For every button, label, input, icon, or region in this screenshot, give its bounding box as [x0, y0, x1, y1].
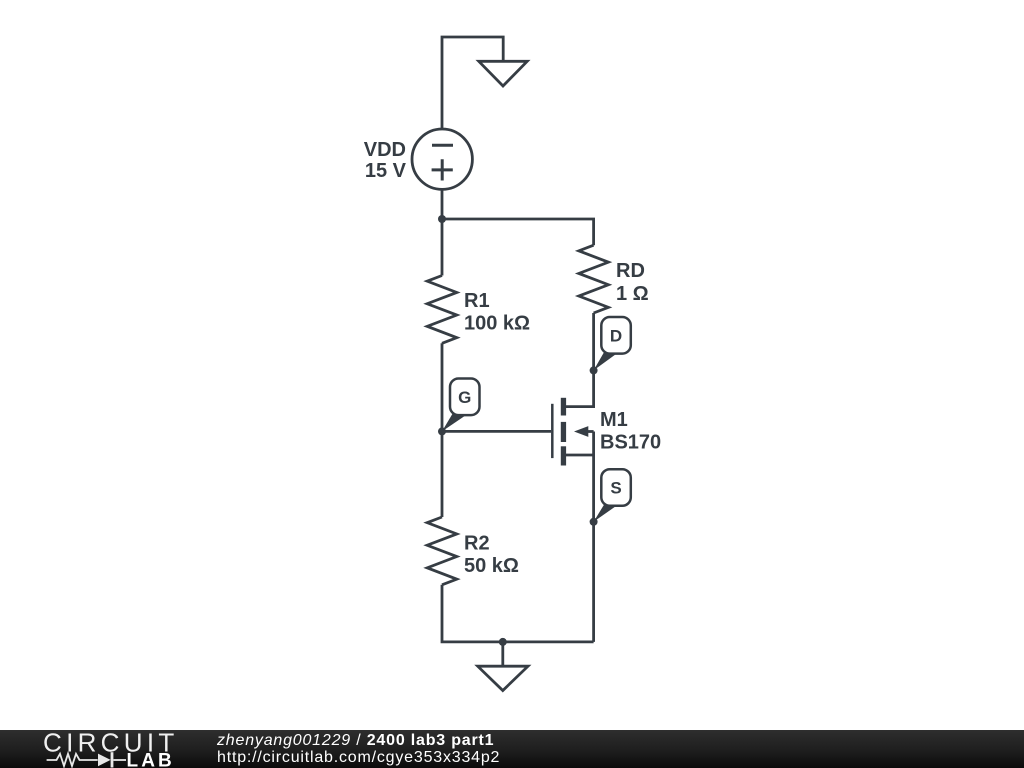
flag pointer S: [594, 504, 617, 522]
footer bar: [0, 730, 1024, 768]
transistor M1 gate line: [551, 404, 554, 458]
node G: [438, 427, 446, 435]
svg-text:R1: R1: [464, 290, 490, 312]
ground (bottom) stem: [501, 642, 504, 666]
logo diode symbol: [98, 752, 113, 767]
flag box S: [601, 469, 631, 506]
node VDD junction: [438, 215, 446, 223]
flag pointer D: [594, 352, 619, 370]
wire top T from VDD to ground: [442, 37, 503, 129]
flag box D: [601, 317, 631, 354]
svg-text:1 Ω: 1 Ω: [616, 283, 649, 305]
node S: [590, 518, 598, 526]
resistor R1: [427, 276, 457, 344]
svg-text:S: S: [610, 479, 621, 498]
transistor M1 body arrow: [574, 426, 588, 437]
svg-text:R2: R2: [464, 533, 490, 555]
ground (top): [479, 61, 527, 86]
flag box G: [450, 379, 480, 416]
flag pointer G: [442, 414, 468, 432]
resistor RD: [579, 245, 609, 313]
svg-text:M1: M1: [600, 409, 628, 431]
wire source tap: [566, 454, 594, 457]
wire drain tap: [566, 370, 594, 406]
svg-text:BS170: BS170: [600, 432, 661, 454]
node ground rail junction: [499, 638, 507, 646]
wire RD bottom lead to drain: [592, 313, 595, 370]
voltage source V1 VDD: [412, 129, 472, 189]
ground (bottom): [478, 666, 528, 690]
wire R2 top lead: [441, 431, 444, 517]
wire source branch to rail: [592, 432, 595, 642]
wire node to RD branch: [442, 219, 594, 245]
wire gate lead: [442, 430, 551, 433]
wire R1 bottom lead: [441, 343, 444, 431]
wire R1 top lead: [441, 219, 444, 276]
node D: [590, 366, 598, 374]
svg-text:RD: RD: [616, 260, 645, 282]
wire mid tap: [586, 430, 594, 433]
svg-text:15 V: 15 V: [365, 160, 407, 182]
logo resistor-diode squiggle: [47, 754, 126, 766]
svg-text:100 kΩ: 100 kΩ: [464, 313, 530, 335]
svg-text:50 kΩ: 50 kΩ: [464, 555, 519, 577]
svg-text:G: G: [458, 388, 471, 407]
wire R2 bottom lead and bottom rail: [442, 585, 594, 642]
resistor R2: [427, 517, 457, 585]
wire VDD bottom lead: [441, 189, 444, 219]
transistor M1 channel bars: [561, 398, 566, 416]
svg-text:VDD: VDD: [364, 139, 406, 161]
svg-text:D: D: [610, 327, 622, 346]
footer credits text: [217, 732, 500, 767]
